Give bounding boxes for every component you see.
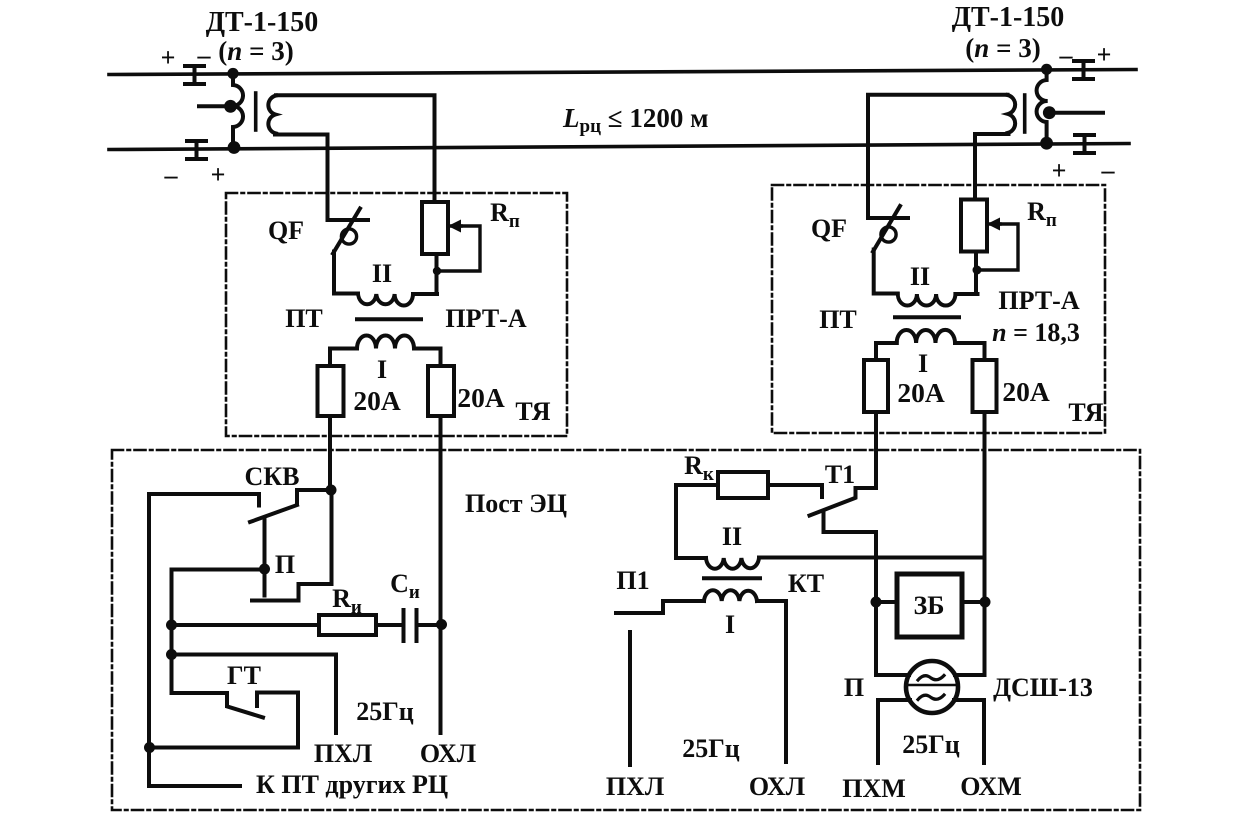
- wire: left DT secondary top lead to Rp: [276, 95, 435, 202]
- svg-text:n = 18,3: n = 18,3: [992, 318, 1080, 347]
- wire: PHM terminal: [878, 700, 910, 763]
- svg-text:20А: 20А: [897, 377, 945, 408]
- wire: right DT secondary top lead to QF: [868, 95, 1008, 218]
- svg-text:II: II: [372, 259, 392, 288]
- transformer PT left: core bar: [357, 317, 421, 321]
- wire: Rk left lead to KT II: [676, 485, 718, 558]
- fuse 20A right-left: [864, 360, 888, 412]
- transformer PT right: core bar: [895, 315, 959, 319]
- wire: winding I right lead / OHL feeder: [414, 349, 441, 734]
- wire: right DT mid tap lead: [1050, 111, 1103, 115]
- node: left DT top rail junction: [227, 68, 238, 79]
- wire: Ci to OHL wire: [419, 623, 441, 627]
- wire: Ri to Ci: [376, 623, 401, 627]
- contact P: [252, 490, 332, 601]
- wire: ZB left lead: [876, 600, 897, 604]
- Rp right wiper arrow and loop: [973, 218, 1019, 275]
- wire: DSSh top-left lead: [876, 673, 909, 677]
- svg-text:Rп: Rп: [1027, 197, 1057, 231]
- svg-text:ЗБ: ЗБ: [914, 591, 945, 620]
- svg-text:ПРТ-А: ПРТ-А: [998, 286, 1079, 315]
- svg-text:QF: QF: [811, 214, 847, 243]
- capacitor Ci: [404, 610, 417, 641]
- wire: Ri branch: [172, 623, 320, 627]
- transformer PT/PRT-A right: winding II: [898, 294, 978, 306]
- node: Ci-OHL junction: [436, 619, 447, 630]
- transformer DT-1-150 left: primary winding: [232, 74, 243, 146]
- svg-text:ТЯ: ТЯ: [515, 397, 550, 426]
- Rp left wiper arrow and loop: [433, 220, 480, 276]
- box TYa left (dash-dot): [226, 193, 567, 436]
- svg-text:КТ: КТ: [788, 569, 824, 598]
- svg-text:ТЯ: ТЯ: [1068, 398, 1103, 427]
- box TYa right (dash-dot): [772, 185, 1105, 433]
- svg-text:II: II: [722, 522, 742, 551]
- fuse 20A left-left: [318, 366, 344, 416]
- transformer KT: winding I: [704, 590, 757, 601]
- wire: left DT secondary bottom lead to QF: [275, 135, 328, 221]
- svg-text:ПХМ: ПХМ: [842, 774, 906, 803]
- node: ZB left junction: [871, 597, 882, 608]
- svg-text:П1: П1: [616, 566, 649, 595]
- wire: OHM terminal: [954, 700, 984, 763]
- insulated joint left bottom: [187, 141, 206, 159]
- svg-text:(n = 3): (n = 3): [218, 36, 293, 66]
- transformer KT: winding II: [706, 558, 759, 569]
- svg-text:Rи: Rи: [332, 584, 362, 618]
- svg-text:Т1: Т1: [825, 460, 855, 489]
- transformer PT right: winding I: [897, 330, 955, 343]
- insulated joint right bottom: [1075, 135, 1094, 153]
- svg-text:+: +: [211, 160, 226, 189]
- svg-text:25Гц: 25Гц: [682, 734, 740, 763]
- svg-text:(n = 3): (n = 3): [965, 33, 1040, 63]
- svg-text:25Гц: 25Гц: [902, 730, 960, 759]
- wire: KT I right lead / OHL terminal right: [757, 601, 786, 762]
- transformer DT right: core bar: [1023, 95, 1027, 132]
- fuse 20A left-right: [428, 366, 454, 416]
- breaker QF left: [328, 209, 369, 294]
- node: right DT top rail junction: [1041, 64, 1052, 75]
- wire: KT II right lead: [759, 556, 985, 560]
- svg-text:II: II: [910, 262, 930, 291]
- resistor Ri: [319, 615, 376, 635]
- rail 2 (bottom): [109, 144, 1129, 150]
- node: right DT bottom rail junction: [1040, 137, 1053, 150]
- svg-text:ДСШ-13: ДСШ-13: [993, 673, 1093, 702]
- resistor Rp left: [422, 202, 448, 294]
- relay DSSh-13: [906, 661, 958, 713]
- node: SKV junction: [326, 485, 337, 496]
- fuse 20A right-right: [973, 360, 997, 412]
- contact SKV: [149, 490, 331, 522]
- resistor Rp right: [961, 200, 987, 295]
- contact T1: [768, 485, 876, 675]
- svg-text:ДТ-1-150: ДТ-1-150: [952, 2, 1065, 33]
- svg-text:QF: QF: [268, 216, 304, 245]
- svg-text:–: –: [197, 41, 212, 70]
- svg-text:ПРТ-А: ПРТ-А: [445, 304, 526, 333]
- contact P1: [616, 601, 704, 613]
- svg-text:I: I: [918, 349, 928, 378]
- svg-text:Си: Си: [390, 569, 420, 603]
- transformer PT/PRT-A left: winding II: [358, 294, 437, 306]
- svg-text:+: +: [161, 43, 176, 72]
- wire: right winding I left lead to T1: [876, 343, 897, 488]
- wire: left common vertical: [147, 494, 151, 786]
- transformer DT left: secondary winding: [268, 96, 276, 134]
- svg-text:ПХЛ: ПХЛ: [314, 739, 372, 768]
- svg-text:ПТ: ПТ: [819, 305, 857, 334]
- svg-text:ГТ: ГТ: [227, 661, 261, 690]
- svg-text:20А: 20А: [353, 385, 401, 416]
- wire: ZB right lead: [962, 600, 985, 604]
- wire: left DT mid tap lead: [199, 104, 230, 108]
- resistor Rk: [718, 472, 768, 498]
- transformer DT left: core bar: [254, 93, 258, 130]
- svg-text:К ПТ других РЦ: К ПТ других РЦ: [256, 770, 448, 799]
- contact GT: [172, 693, 299, 748]
- svg-text:–: –: [164, 161, 179, 190]
- block ZB: [897, 574, 962, 637]
- svg-text:ПХЛ: ПХЛ: [606, 772, 664, 801]
- transformer PT left: winding I: [357, 336, 414, 349]
- svg-text:20А: 20А: [1002, 376, 1050, 407]
- rail 1 (top): [109, 70, 1136, 75]
- insulated joint left top: [185, 66, 204, 84]
- node: right DT mid tap junction: [1043, 106, 1056, 119]
- node: left DT mid tap junction: [224, 100, 237, 113]
- wire: K PT drugikh RC lead: [149, 784, 240, 788]
- node: left DT bottom rail junction: [228, 141, 241, 154]
- node: ZB right junction: [980, 597, 991, 608]
- node: PHL branch junction: [166, 649, 177, 660]
- node: P junction: [259, 564, 270, 575]
- wire: winding I left lead: [330, 349, 357, 491]
- box Post EC (dash-dot): [112, 450, 1140, 810]
- svg-text:ПТ: ПТ: [285, 304, 323, 333]
- breaker QF right: [868, 206, 908, 294]
- svg-text:Пост ЭЦ: Пост ЭЦ: [465, 489, 567, 518]
- transformer DT right: secondary winding: [1008, 95, 1016, 133]
- svg-text:+: +: [1052, 156, 1067, 185]
- wire: DSSh top-right lead: [955, 673, 985, 677]
- svg-text:Rк: Rк: [684, 451, 714, 485]
- wire: P horizontal and left drop: [172, 570, 265, 694]
- svg-text:+: +: [1097, 40, 1112, 69]
- svg-text:Rп: Rп: [490, 198, 520, 232]
- wire: right DT secondary bottom lead to Rp: [975, 134, 1009, 200]
- wire: PHL branch: [172, 655, 337, 734]
- svg-text:20А: 20А: [457, 382, 505, 413]
- wire: GT output bottom wire: [150, 746, 298, 750]
- insulated joint right top: [1074, 61, 1093, 79]
- node: bottom left junction: [144, 742, 155, 753]
- svg-text:СКВ: СКВ: [245, 462, 300, 491]
- node: Ri wire junction: [166, 620, 177, 631]
- wire: right winding I right lead down: [955, 343, 985, 675]
- svg-text:I: I: [377, 355, 387, 384]
- svg-text:ОХЛ: ОХЛ: [749, 772, 805, 801]
- svg-text:I: I: [725, 610, 735, 639]
- svg-text:–: –: [1101, 156, 1116, 185]
- transformer KT: core bar: [704, 576, 760, 580]
- svg-text:ДТ-1-150: ДТ-1-150: [206, 7, 319, 38]
- wire: SKV front contact riser to P: [263, 520, 267, 569]
- transformer DT-1-150 right: primary winding: [1037, 69, 1048, 141]
- svg-text:ОХМ: ОХМ: [960, 772, 1022, 801]
- svg-text:ОХЛ: ОХЛ: [420, 739, 476, 768]
- wire: PHL terminal right: [628, 632, 632, 765]
- svg-text:П: П: [275, 550, 295, 579]
- svg-text:Lрц ≤ 1200 м: Lрц ≤ 1200 м: [562, 103, 708, 137]
- svg-text:25Гц: 25Гц: [356, 697, 414, 726]
- svg-text:П: П: [844, 673, 864, 702]
- svg-text:–: –: [1059, 41, 1074, 70]
